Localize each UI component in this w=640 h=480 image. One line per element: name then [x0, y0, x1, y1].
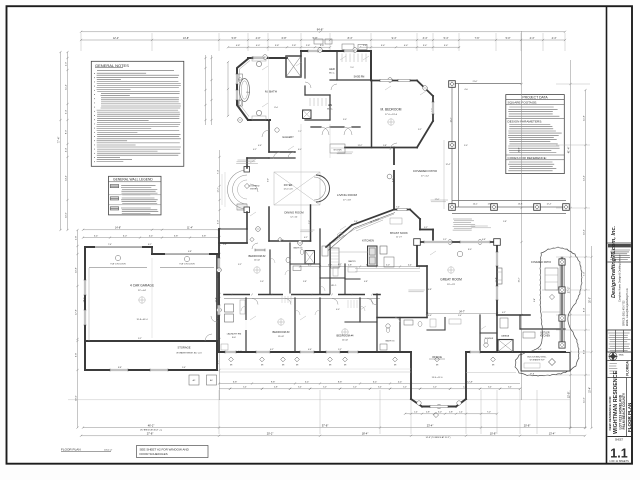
svg-text:11'-8": 11'-8" — [583, 115, 585, 121]
svg-text:4'-4": 4'-4" — [552, 37, 557, 40]
svg-text:2'-8": 2'-8" — [306, 45, 311, 47]
window diamonds along south wall — [229, 357, 234, 362]
kitchen counters — [331, 248, 340, 268]
svg-text:37'-8": 37'-8" — [322, 423, 329, 427]
svg-text:10'-2": 10'-2" — [450, 117, 452, 122]
svg-text:FLOOR PLAN: FLOOR PLAN — [61, 448, 81, 452]
svg-text:5'-8": 5'-8" — [174, 235, 179, 237]
front door arc — [250, 184, 258, 192]
svg-text:20'-2": 20'-2" — [267, 432, 274, 436]
svg-text:B'FAST NOOK: B'FAST NOOK — [390, 231, 408, 235]
bottom dimension line C — [81, 435, 585, 437]
svg-text:5'-4": 5'-4" — [458, 315, 462, 317]
leader notes scattered — [238, 159, 255, 161]
svg-text:10'-8": 10'-8" — [490, 432, 497, 436]
svg-text:9'-8": 9'-8" — [75, 353, 77, 358]
bath/closet divider — [304, 58, 306, 78]
storage door arc — [205, 334, 212, 341]
corridor door gaps — [250, 294, 258, 296]
svg-text:COVERED: COVERED — [249, 186, 260, 188]
svg-text:4'-4": 4'-4" — [404, 45, 409, 47]
svg-text:23'-4": 23'-4" — [427, 423, 434, 427]
windows on exterior walls — [236, 74, 239, 84]
svg-text:1.1: 1.1 — [610, 447, 627, 461]
svg-text:3'-0": 3'-0" — [464, 145, 468, 147]
octagon inner lines — [240, 61, 251, 117]
corridor tick marks — [231, 294, 233, 296]
svg-text:W/ WATER RESIST. BD. CLG: W/ WATER RESIST. BD. CLG — [176, 352, 202, 355]
svg-text:FLOOR PLAN: FLOOR PLAN — [627, 403, 632, 432]
kitchen diag parallel — [328, 213, 395, 251]
wic shelves — [341, 54, 343, 63]
svg-text:77'-4": 77'-4" — [56, 137, 60, 144]
svg-text:6'-0": 6'-0" — [123, 235, 128, 237]
svg-text:SHEET: SHEET — [615, 438, 624, 441]
svg-text:7'-2": 7'-2" — [309, 220, 311, 224]
paver band under south wall — [219, 371, 411, 373]
svg-text:41'-4": 41'-4" — [566, 147, 570, 154]
ac pads — [189, 375, 199, 385]
svg-text:18'-2": 18'-2" — [518, 277, 520, 282]
svg-text:12'-4": 12'-4" — [215, 297, 217, 302]
svg-text:5'-0": 5'-0" — [260, 281, 264, 283]
wing north walls — [219, 242, 247, 244]
svg-text:5'-0": 5'-0" — [323, 387, 327, 389]
bottom dimension line B — [83, 427, 585, 429]
garage outline — [84, 247, 86, 341]
svg-text:1'-4": 1'-4" — [414, 412, 418, 414]
right dimension line 1 — [570, 60, 572, 428]
svg-text:3'-8": 3'-8" — [275, 45, 280, 47]
svg-text:17' x 18': 17' x 18' — [343, 199, 352, 201]
window circle markers — [263, 55, 268, 60]
wall legend box — [109, 176, 162, 215]
svg-text:4'-0": 4'-0" — [308, 264, 312, 266]
svg-text:5'-6": 5'-6" — [280, 240, 284, 242]
svg-text:14'-4": 14'-4" — [65, 175, 67, 181]
svg-text:8'-0": 8'-0" — [65, 130, 67, 135]
svg-text:9'-0": 9'-0" — [267, 178, 269, 182]
svg-text:5'-6": 5'-6" — [182, 367, 186, 369]
svg-text:KITCHEN: KITCHEN — [362, 239, 374, 243]
svg-text:5'-0": 5'-0" — [403, 387, 407, 389]
svg-text:9'-6": 9'-6" — [354, 221, 358, 223]
svg-text:5'-4": 5'-4" — [65, 110, 67, 115]
kitchen island — [368, 246, 378, 266]
bath4 cluster walls — [377, 317, 427, 319]
svg-text:2'-8": 2'-8" — [449, 412, 453, 414]
foyer curved wall — [316, 175, 330, 202]
master shower — [286, 56, 301, 77]
svg-text:DESIGN PARAMETERS:: DESIGN PARAMETERS: — [508, 119, 543, 123]
patio beam vertical — [451, 84, 453, 208]
door arcs suite — [262, 130, 269, 137]
upper fixtures — [286, 257, 290, 262]
bottom dimension line A — [405, 413, 497, 415]
svg-text:NEW RESIDENCE FOR:: NEW RESIDENCE FOR: — [608, 396, 612, 431]
svg-text:CABANA: CABANA — [501, 335, 510, 338]
svg-text:5'-0": 5'-0" — [433, 387, 437, 389]
svg-text:11'-4": 11'-4" — [65, 84, 67, 90]
svg-text:19' x 23': 19' x 23' — [447, 284, 456, 286]
svg-text:7'-2": 7'-2" — [298, 131, 302, 133]
svg-text:5'-0": 5'-0" — [506, 37, 511, 40]
summer kitchen bbq — [521, 353, 570, 372]
south wing closet shelves — [347, 300, 349, 308]
dining room walls — [268, 207, 270, 241]
svg-text:COVERED PATIO: COVERED PATIO — [413, 169, 438, 173]
title block top info box — [607, 242, 631, 244]
svg-text:12'-8": 12'-8" — [467, 381, 473, 383]
svg-text:5'-0": 5'-0" — [463, 387, 467, 389]
svg-text:4'-0": 4'-0" — [256, 37, 261, 40]
svg-text:5'-0": 5'-0" — [386, 264, 390, 266]
svg-text:DOOR SCHEDULES: DOOR SCHEDULES — [140, 452, 168, 456]
kitchen diag counter — [332, 214, 394, 243]
svg-text:4 CAR GARAGE: 4 CAR GARAGE — [130, 284, 154, 288]
great room inner dim — [427, 313, 497, 315]
svg-text:DesignDrafting76.com, Inc.: DesignDrafting76.com, Inc. — [611, 225, 617, 298]
great room fireplace + niches — [497, 268, 502, 284]
patio steps — [542, 289, 560, 291]
svg-text:W.I.C.: W.I.C. — [327, 108, 333, 110]
gallery west wall — [268, 120, 270, 152]
linen closet X — [303, 110, 312, 119]
bed4/bath corridor door arcs — [371, 299, 377, 305]
svg-text:8'-6": 8'-6" — [392, 178, 394, 182]
svg-text:FLORIDA: FLORIDA — [625, 361, 629, 376]
svg-text:17'-8": 17'-8" — [75, 309, 77, 315]
svg-text:3'-4": 3'-4" — [423, 45, 428, 47]
svg-text:PALM BEACH COUNTY: PALM BEACH COUNTY — [622, 392, 626, 429]
svg-text:12' x 14': 12' x 14' — [290, 217, 298, 219]
patio interior details — [545, 268, 558, 290]
svg-text:3'-0": 3'-0" — [320, 45, 325, 47]
svg-text:W.I.C.: W.I.C. — [329, 72, 335, 74]
svg-text:27'-8": 27'-8" — [147, 432, 154, 436]
svg-text:8'-4": 8'-4" — [583, 308, 585, 313]
svg-text:11' x 9': 11' x 9' — [396, 237, 403, 239]
svg-text:5'-8": 5'-8" — [503, 221, 507, 223]
wic/bath cluster east of bed3 — [344, 264, 346, 279]
south wall west part — [219, 351, 411, 353]
svg-text:SEAL: SEAL — [619, 353, 625, 356]
nook note block — [453, 218, 472, 220]
master bath top wall — [248, 57, 287, 59]
svg-text:4'-4": 4'-4" — [65, 148, 67, 153]
svg-text:8'-0": 8'-0" — [468, 249, 472, 251]
m.bedroom west wall — [371, 80, 373, 148]
svg-text:12'-4": 12'-4" — [113, 37, 119, 40]
vestibule bench — [330, 144, 345, 153]
svg-text:1/4"=1'-0": 1/4"=1'-0" — [104, 450, 112, 452]
svg-text:11'-4": 11'-4" — [187, 227, 193, 230]
svg-text:5'-8": 5'-8" — [538, 349, 542, 351]
upper rooms dividers — [269, 250, 271, 294]
blob inner hatch wall — [561, 258, 564, 347]
corridor walls — [224, 294, 380, 296]
svg-text:3'-0": 3'-0" — [343, 119, 347, 121]
svg-text:5'-4": 5'-4" — [444, 45, 449, 47]
svg-text:2'-4": 2'-4" — [363, 45, 368, 47]
laundry appliances — [225, 304, 234, 312]
title block project grid — [607, 330, 615, 352]
title block divider — [606, 6, 608, 464]
svg-text:4'-0": 4'-0" — [336, 309, 340, 311]
great room left wall upper — [416, 242, 418, 266]
closet top wall jog — [300, 51, 302, 56]
svg-text:8'-8": 8'-8" — [338, 381, 343, 383]
svg-text:M. BEDROOM: M. BEDROOM — [381, 108, 402, 112]
svg-text:9'x8' O.H. DOOR: 9'x8' O.H. DOOR — [110, 264, 126, 266]
cabana shower — [498, 340, 513, 352]
svg-text:3'-4": 3'-4" — [423, 37, 428, 40]
svg-text:BEDROOM #3: BEDROOM #3 — [272, 330, 290, 334]
wing west wall — [218, 229, 220, 352]
toilet symbols — [300, 250, 304, 255]
svg-text:6'-6": 6'-6" — [428, 315, 432, 317]
m.bedroom chamfer se — [417, 121, 433, 148]
svg-text:11'-0": 11'-0" — [583, 397, 585, 403]
svg-text:(TO BRICK AT 46'-8" +/-): (TO BRICK AT 46'-8" +/-) — [140, 429, 162, 432]
corridor door arcs — [252, 299, 258, 305]
svg-text:5'-4": 5'-4" — [444, 37, 449, 40]
master suite inner hall — [329, 95, 331, 120]
svg-text:2'-8": 2'-8" — [75, 236, 77, 241]
garage door headers — [89, 267, 147, 269]
svg-text:12'x12': 12'x12' — [278, 336, 285, 338]
svg-text:7'-4": 7'-4" — [217, 170, 219, 175]
svg-text:9'-8": 9'-8" — [271, 381, 276, 383]
svg-text:DINING ROOM: DINING ROOM — [284, 211, 304, 215]
svg-text:10'-8": 10'-8" — [75, 267, 77, 273]
svg-text:9'-4": 9'-4" — [392, 37, 397, 40]
tub — [240, 79, 250, 102]
label tags above wall — [342, 44, 354, 50]
svg-text:8'x9': 8'x9' — [232, 337, 236, 339]
svg-text:4'-4": 4'-4" — [398, 381, 403, 383]
svg-text:BATH #3: BATH #3 — [386, 340, 395, 343]
svg-text:FOYER: FOYER — [284, 184, 293, 187]
svg-text:13'-0": 13'-0" — [488, 204, 493, 206]
svg-text:5'-4": 5'-4" — [94, 235, 99, 237]
svg-text:47'-8: 47'-8 — [530, 374, 534, 376]
project data box — [506, 95, 565, 174]
interior dim row kitchen — [300, 266, 427, 268]
great room col markers — [494, 239, 501, 246]
general notes box — [91, 61, 184, 166]
south wall right part — [466, 351, 565, 353]
interior dim column x521 — [521, 31, 523, 400]
right dimension line 2 — [585, 90, 587, 428]
butler kitchen — [497, 314, 530, 316]
svg-text:Complete Home Design & Draftin: Complete Home Design & Drafting Service — [619, 254, 622, 302]
svg-text:5'-8": 5'-8" — [232, 37, 237, 40]
svg-text:11'-2": 11'-2" — [358, 145, 363, 147]
svg-text:HER: HER — [329, 67, 335, 71]
dining hutch — [237, 204, 247, 210]
laundry/mud extra — [221, 344, 228, 350]
svg-text:SHOE RM: SHOE RM — [354, 77, 365, 79]
svg-text:3'-4": 3'-4" — [488, 387, 492, 389]
svg-text:5'-8": 5'-8" — [313, 37, 318, 40]
svg-text:5'-0": 5'-0" — [353, 387, 357, 389]
his/her closet divider — [336, 51, 338, 80]
foyer feature X — [274, 172, 320, 205]
svg-text:3'-4": 3'-4" — [508, 387, 512, 389]
great room left wall lower — [426, 266, 428, 313]
entry columns — [244, 167, 250, 173]
svg-text:EMAIL: sales@designdrafting76.: EMAIL: sales@designdrafting76.com — [626, 288, 629, 326]
svg-text:21'-0": 21'-0" — [473, 81, 478, 83]
svg-text:3'-0": 3'-0" — [438, 412, 442, 414]
svg-text:2'-8": 2'-8" — [426, 412, 430, 414]
extension verticals from top dims — [80, 33, 82, 51]
svg-text:BUILT-IN BBQ GRILL: BUILT-IN BBQ GRILL — [527, 357, 547, 359]
svg-text:4'-2": 4'-2" — [304, 237, 308, 239]
svg-text:LAUNDRY RM: LAUNDRY RM — [227, 333, 242, 336]
great room right wall — [496, 242, 498, 315]
svg-text:46'-2": 46'-2" — [148, 423, 155, 427]
svg-text:SQUARE FOOTAGE:: SQUARE FOOTAGE: — [508, 100, 538, 104]
svg-text:6'-2": 6'-2" — [338, 264, 342, 266]
svg-text:PROJECT DATA: PROJECT DATA — [522, 96, 548, 100]
patio columns — [449, 81, 456, 88]
svg-text:W.I.C.: W.I.C. — [331, 285, 337, 287]
svg-text:41'-8": 41'-8" — [518, 147, 520, 152]
svg-text:BEDROOM #4: BEDROOM #4 — [336, 334, 354, 338]
center extension verticals — [300, 124, 302, 250]
svg-text:10'-0": 10'-0" — [65, 212, 67, 218]
svg-text:M. BATH: M. BATH — [265, 90, 277, 94]
svg-text:CODES FOR REFERENCE:: CODES FOR REFERENCE: — [508, 156, 547, 160]
svg-text:14'-2": 14'-2" — [83, 297, 85, 302]
svg-text:4'-8": 4'-8" — [348, 264, 352, 266]
office bay — [410, 352, 412, 399]
left dimension line 2 — [67, 52, 69, 230]
svg-text:12'-0 CLG: 12'-0 CLG — [283, 189, 292, 191]
svg-text:10'-4": 10'-4" — [583, 229, 585, 235]
svg-text:GALLERY: GALLERY — [282, 136, 294, 139]
svg-text:7'-6": 7'-6" — [475, 37, 480, 40]
patio wall window marker — [387, 174, 392, 179]
svg-text:17'-0 x 19'-4: 17'-0 x 19'-4 — [385, 114, 398, 116]
svg-text:SEE SHEET A2 FOR WINDOW AND: SEE SHEET A2 FOR WINDOW AND — [140, 447, 190, 451]
bath3 shower — [305, 251, 315, 264]
svg-text:4'-2": 4'-2" — [502, 312, 506, 314]
svg-text:LIVING ROOM: LIVING ROOM — [337, 193, 358, 197]
svg-text:OFFICE: (561) 479-7732: OFFICE: (561) 479-7732 — [624, 300, 626, 326]
top dimension line 3 segments — [228, 46, 330, 48]
svg-text:5'-4": 5'-4" — [381, 45, 386, 47]
svg-text:1 OF 11 SHEETS: 1 OF 11 SHEETS — [609, 460, 629, 463]
svg-text:9'x8' O.H. DOOR: 9'x8' O.H. DOOR — [179, 264, 195, 266]
svg-text:BEDROOM #2: BEDROOM #2 — [248, 254, 266, 258]
storage room — [84, 341, 86, 370]
svg-text:7'-0": 7'-0" — [583, 272, 585, 277]
left dimension line 1 — [60, 52, 62, 230]
svg-text:4'-2": 4'-2" — [253, 149, 257, 151]
m.bedroom east wall — [432, 96, 434, 121]
schedules note box — [137, 446, 209, 458]
svg-text:6'-2": 6'-2" — [270, 349, 274, 351]
svg-text:3'-8": 3'-8" — [303, 281, 307, 283]
interior dim rows south wing — [219, 383, 520, 385]
compass logo — [609, 352, 617, 360]
great room top wall — [417, 241, 497, 243]
svg-text:9'-2": 9'-2" — [418, 129, 422, 131]
svg-text:5'-8": 5'-8" — [202, 235, 207, 237]
svg-text:5'-4": 5'-4" — [305, 381, 310, 383]
kitchen diagonal walls — [326, 225, 352, 247]
entry steps lines — [224, 172, 226, 207]
svg-text:12'-4": 12'-4" — [547, 204, 552, 206]
patio beam top — [452, 83, 521, 85]
m.bath south wall — [248, 119, 270, 121]
blob columns — [559, 259, 565, 265]
svg-text:5'-4": 5'-4" — [243, 387, 247, 389]
right extension horizontals — [556, 83, 590, 85]
covered entry arcs — [228, 170, 248, 209]
cabana bath — [479, 315, 481, 352]
svg-text:13'-4 x 11'-0: 13'-4 x 11'-0 — [432, 377, 444, 379]
m.bedroom south wall — [345, 147, 417, 149]
svg-text:13'-4": 13'-4" — [549, 432, 556, 436]
svg-text:12'-2": 12'-2" — [217, 187, 219, 192]
svg-text:3'-4": 3'-4" — [378, 387, 382, 389]
svg-text:20'-0": 20'-0" — [589, 297, 591, 303]
wing north wall window diamonds — [250, 237, 254, 241]
svg-text:6'-8": 6'-8" — [282, 37, 287, 40]
office/bath cluster walls — [410, 318, 412, 353]
svg-text:6'-8": 6'-8" — [188, 251, 192, 253]
svg-text:STORAGE: STORAGE — [177, 346, 190, 350]
patio beams horizontal — [452, 200, 566, 202]
interior dim rows left-mid — [83, 229, 219, 231]
closets top wall — [301, 50, 371, 52]
svg-text:4'-6": 4'-6" — [258, 145, 262, 147]
kitchen extra counters — [337, 232, 343, 238]
svg-text:9'-2": 9'-2" — [138, 338, 142, 340]
svg-text:3'-4": 3'-4" — [298, 387, 302, 389]
svg-text:7'-0": 7'-0" — [487, 412, 491, 414]
bath bay dim string — [205, 55, 207, 125]
interior dim column x219 — [219, 150, 221, 400]
svg-text:13'-8": 13'-8" — [183, 37, 189, 40]
left dimension line 3 — [77, 230, 79, 428]
svg-text:12'-8": 12'-8" — [566, 392, 570, 399]
master bath octagon bay wall — [237, 58, 249, 120]
hall closets x270-330 y120-160 — [269, 157, 295, 159]
svg-text:4'-8": 4'-8" — [274, 387, 278, 389]
svg-text:7'-4": 7'-4" — [108, 244, 112, 246]
suite vestibule double doors — [311, 126, 321, 128]
svg-text:8'-2": 8'-2" — [148, 244, 152, 246]
svg-text:4'-0": 4'-0" — [238, 351, 242, 353]
gallery walls — [269, 151, 295, 153]
extension verticals bottom — [218, 390, 220, 434]
breakfast nook bay — [394, 209, 410, 211]
svg-text:17' x 12': 17' x 12' — [421, 175, 430, 177]
svg-text:GENERAL NOTES: GENERAL NOTES — [95, 63, 129, 68]
svg-text:4'-4": 4'-4" — [530, 37, 535, 40]
ceiling fans — [254, 267, 260, 273]
svg-text:20'-8": 20'-8" — [524, 423, 531, 427]
svg-text:94'-8": 94'-8" — [317, 28, 324, 32]
svg-text:13'-4": 13'-4" — [583, 175, 585, 181]
svg-text:GENERAL WALL LEGEND: GENERAL WALL LEGEND — [113, 178, 153, 182]
svg-text:6'-0": 6'-0" — [298, 149, 302, 151]
